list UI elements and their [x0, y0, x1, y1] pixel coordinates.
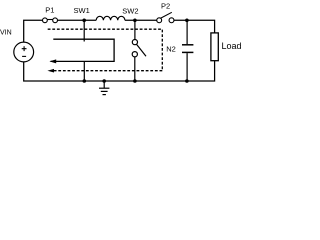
node output junction top [185, 19, 189, 23]
node SW2 [122, 7, 138, 23]
wire bottom rail [24, 61, 215, 81]
node rail junction A [83, 79, 87, 83]
svg-text:N2: N2 [166, 45, 176, 54]
wire top rail [24, 20, 215, 42]
svg-text:P1: P1 [45, 6, 54, 15]
dashed loop arrowhead [47, 69, 54, 73]
svg-text:SW2: SW2 [122, 7, 138, 16]
wire solid loop stub to rail [83, 61, 85, 81]
node SW1 [74, 6, 90, 22]
wire SW1 stub down [83, 20, 85, 39]
wire solid loop stub from SW1 [83, 39, 85, 41]
svg-text:VIN: VIN [0, 29, 12, 36]
inductor L [96, 16, 125, 20]
ground [99, 81, 109, 95]
svg-text:P2: P2 [161, 2, 170, 11]
svg-text:SW1: SW1 [74, 6, 90, 15]
source VIN [0, 29, 34, 61]
wire solid loop arrow (P1 on-phase current) [51, 39, 115, 61]
switch SW2 (low-side, open) [132, 20, 146, 81]
switch P2 (open) [157, 2, 174, 23]
node capacitor bottom junction [185, 79, 189, 83]
node SW2 bottom junction [133, 79, 137, 83]
wire solid loop arrowhead [49, 59, 56, 63]
connector P1 [43, 6, 58, 23]
node ground junction [102, 79, 106, 83]
resistor Load [211, 33, 242, 61]
capacitor COUT [182, 20, 193, 81]
dashed box / loop N2 [48, 29, 163, 70]
svg-text:Load: Load [222, 41, 242, 51]
